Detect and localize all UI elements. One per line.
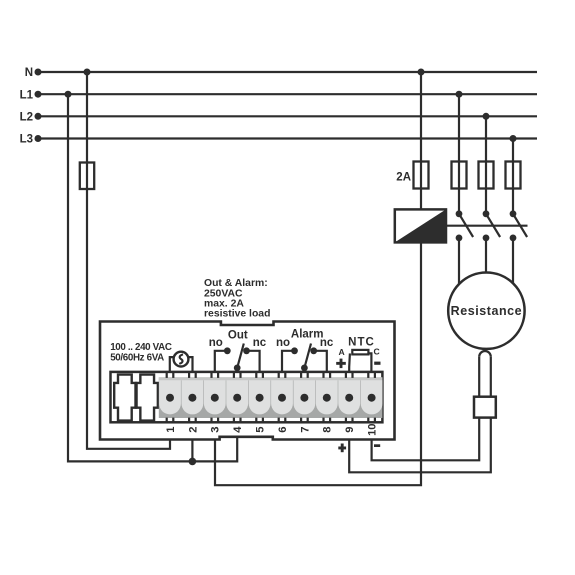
svg-text:7: 7	[299, 427, 311, 433]
svg-text:5: 5	[255, 427, 267, 433]
svg-text:Alarm: Alarm	[291, 328, 324, 340]
svg-text:10: 10	[367, 423, 379, 435]
svg-text:Out: Out	[228, 329, 248, 341]
svg-text:no: no	[276, 337, 290, 349]
svg-text:C: C	[373, 347, 379, 357]
svg-text:1: 1	[165, 427, 177, 433]
svg-text:6: 6	[277, 427, 289, 433]
svg-text:NTC: NTC	[348, 336, 375, 348]
svg-text:2A: 2A	[396, 172, 411, 184]
svg-text:L1: L1	[20, 89, 34, 101]
svg-text:nc: nc	[253, 337, 267, 349]
svg-text:no: no	[209, 337, 223, 349]
svg-text:nc: nc	[320, 337, 334, 349]
svg-text:8: 8	[322, 427, 334, 433]
svg-text:L3: L3	[20, 134, 33, 146]
svg-text:4: 4	[232, 426, 244, 433]
svg-text:resistive load: resistive load	[204, 309, 270, 320]
svg-text:50/60Hz 6VA: 50/60Hz 6VA	[110, 353, 164, 364]
svg-text:A: A	[338, 347, 344, 357]
svg-text:9: 9	[344, 427, 356, 433]
svg-text:L2: L2	[20, 112, 33, 124]
svg-text:100 .. 240 VAC: 100 .. 240 VAC	[110, 342, 172, 353]
svg-text:3: 3	[210, 427, 222, 433]
svg-text:N: N	[25, 67, 33, 79]
svg-text:2: 2	[187, 427, 199, 433]
svg-text:Resistance: Resistance	[451, 304, 523, 318]
